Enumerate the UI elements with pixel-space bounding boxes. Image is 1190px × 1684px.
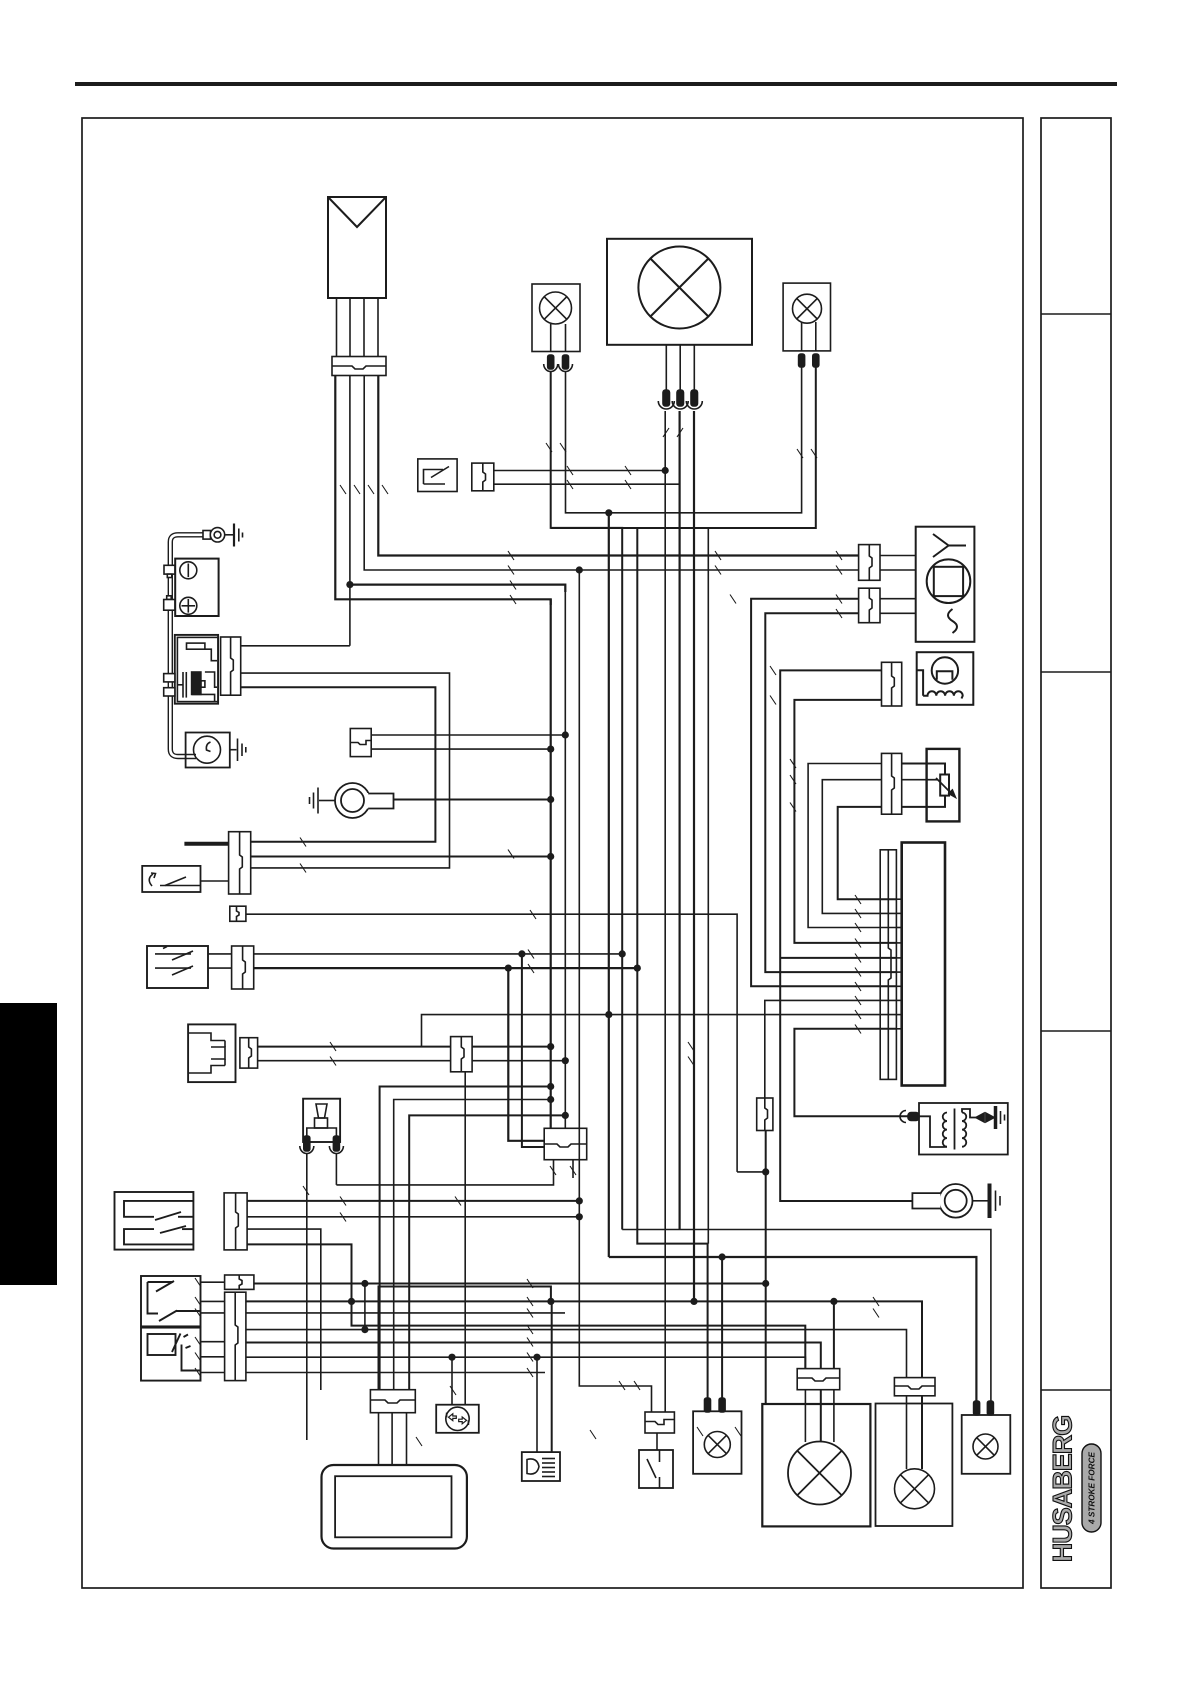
connector CDI aux [757, 1098, 773, 1131]
terminal battery plus [164, 596, 175, 610]
wire hb switch pin4 [247, 1244, 805, 1368]
kill switch [142, 866, 200, 892]
front turn signal lamp [693, 1411, 741, 1474]
regulator rectifier [328, 197, 386, 298]
node h3 junction a [361, 1280, 368, 1287]
wire flasher lead2 [258, 1060, 451, 1062]
wire turn indicator lead1 [451, 1357, 453, 1405]
pin right lamp 1 [799, 354, 805, 367]
ground spark plug [996, 1106, 1005, 1129]
socket cup ignition 2 [329, 1146, 343, 1154]
wire left lamp lead 2 [566, 372, 609, 513]
wire main connector stub [184, 842, 228, 846]
HUSABERG logo [1048, 1416, 1102, 1563]
wire right lamp lead 1 [609, 367, 802, 513]
sidebar divider 2 [1041, 671, 1111, 673]
wire line h6 [246, 1312, 565, 1314]
wire CDI pin10 to ignition coil [794, 1029, 908, 1117]
pin left lamp 1 [548, 355, 554, 369]
wire main connector to bus B1 [251, 856, 551, 858]
wire bus B2 [564, 585, 566, 1129]
pin headlight 3 [691, 390, 698, 406]
thermistor unit [927, 749, 960, 822]
magneto [912, 1184, 972, 1218]
wire speedo B to unit [880, 598, 916, 600]
position lamp left [532, 284, 580, 352]
sidebar column [1041, 118, 1111, 1588]
connector speedo bottom [370, 1390, 415, 1413]
wire thermistor lead2 [822, 780, 896, 914]
pin headlight 2 [677, 390, 684, 406]
turn signal indicator [436, 1405, 479, 1433]
node h5 junction a [547, 1298, 554, 1305]
wire relay to main connector a [241, 673, 450, 868]
wire bus B7 [707, 528, 709, 1244]
node h5 junction b [830, 1298, 837, 1305]
connector handlebar left [224, 1193, 247, 1250]
wire line h8 [246, 1330, 907, 1378]
terminal coil bullet [900, 1111, 919, 1123]
speedometer display [322, 1465, 467, 1549]
node R3 junction [605, 509, 612, 516]
wire speedo A to unit [880, 555, 916, 557]
CDI unit [902, 843, 945, 1086]
terminal relay 2 [164, 688, 175, 696]
connector neutral switch [645, 1412, 674, 1450]
node hb pin1 junction [576, 1197, 583, 1204]
node B9 junction [505, 965, 512, 972]
brake tail lamp [876, 1404, 953, 1527]
wire bus B10 rear harness [522, 954, 544, 1147]
connector CDI strip [880, 850, 896, 1080]
rear turn signal lamp [962, 1415, 1011, 1474]
connector speedo B [859, 588, 880, 623]
wire headlight switch feed a [208, 953, 232, 955]
node hb pin4 junction L1 [348, 1298, 355, 1305]
wire speedo B lead2 to CDI [765, 613, 896, 972]
connector accessory [350, 729, 371, 757]
wire brake tail pins [907, 1396, 923, 1469]
wire CDI pin8 to lower connector [765, 1000, 897, 1098]
terminal relay 1 [164, 674, 175, 682]
wire h5 branch down [833, 1301, 835, 1368]
node h10 junction beamind [533, 1354, 540, 1361]
pin front lamp 1 [705, 1398, 711, 1412]
node CDI pin9 junction [605, 1011, 612, 1018]
node horn junction [547, 796, 554, 803]
wire lighting switch links [201, 1282, 225, 1372]
pickup coil unit [917, 652, 974, 705]
wire bus B3 [579, 570, 651, 1412]
wire regulator leads [336, 298, 338, 356]
node B6 junction [634, 965, 641, 972]
wire line h9 [246, 1343, 821, 1369]
connector tail light [797, 1369, 840, 1390]
connector brake switch [472, 463, 494, 491]
wire speedo pins [379, 1413, 407, 1465]
connector pickup [882, 662, 902, 706]
wire line h2 [609, 1257, 977, 1407]
horn [335, 783, 394, 818]
node R7 junction [346, 581, 353, 588]
wire ignition lead2 down [335, 1154, 337, 1185]
wire CDI pin row stubs [896, 899, 901, 1029]
wire instrument stub right [572, 1160, 574, 1178]
ignition coil [919, 1103, 1008, 1155]
node main junction B1 [547, 853, 554, 860]
position lamp right [783, 283, 830, 351]
socket cup headlight 1 [658, 401, 674, 409]
wire headlight indicator lead1 [536, 1357, 538, 1452]
socket cup headlight 2 [672, 401, 688, 409]
connector instrument harness [544, 1128, 587, 1159]
wire pickup lead1 [780, 670, 912, 1201]
wire regulator out 3 [364, 376, 858, 570]
pin rear lamp 2 [987, 1401, 993, 1415]
wire headlight lead1 down [664, 411, 666, 1412]
wire rail R2 [494, 483, 680, 485]
connector speedo A [859, 545, 880, 581]
top rule [75, 82, 1117, 86]
connector small lighting [230, 906, 246, 921]
wire speedo harness lead3 [409, 1115, 565, 1389]
wire accessory lead2 [371, 748, 551, 750]
wire speedo harness lead2 [394, 1100, 551, 1390]
wire headlight indicator lead2 [551, 1301, 553, 1452]
node R1 junction [662, 467, 669, 474]
node accessory junction 2 [547, 746, 554, 753]
wire battery ground cable outline [170, 535, 206, 757]
terminal battery minus [164, 565, 175, 577]
pin right lamp 2 [813, 354, 819, 367]
wire CDI pin9 from flasher jog [422, 1015, 897, 1047]
pin ignition switch 1 [304, 1136, 310, 1151]
wire line h5 main [246, 1301, 922, 1377]
socket cup headlight 3 [686, 401, 702, 409]
wire bus B1 [550, 599, 552, 1128]
wire hb switch pin1 [247, 1200, 579, 1202]
ground magneto [973, 1184, 1001, 1219]
neutral switch [639, 1450, 673, 1488]
wire relay to main connector b [241, 687, 436, 842]
wire flasher lead1 [258, 1046, 451, 1048]
wire kill line join [737, 1171, 766, 1173]
node h3 junction b [762, 1280, 769, 1287]
wire accessory lead1 [371, 734, 565, 736]
connector headlight switch [232, 946, 254, 989]
sidebar divider 1 [1041, 313, 1111, 315]
wire speedo extra lead [380, 1087, 551, 1390]
horn capacitor [186, 733, 230, 768]
wire headlight lead2 down [678, 411, 680, 1230]
main border frame [82, 118, 1023, 1588]
node rail R6 junction [576, 566, 583, 573]
wire hb pin3 vertical link [364, 1284, 366, 1330]
ground battery [203, 524, 243, 547]
headlight beam indicator [522, 1452, 560, 1481]
wire bus B8 tail feed [765, 1131, 767, 1405]
node B5 junction [619, 950, 626, 957]
node B8 kill junction [762, 1168, 769, 1175]
speedometer unit [916, 527, 975, 642]
connector relay [221, 637, 241, 695]
wire headlight leads [665, 345, 667, 391]
wire CDI pin5 to pickup bus [780, 957, 896, 959]
wire bus B6 [637, 528, 707, 1404]
wire slash marks [195, 428, 879, 1446]
wire regulator out 4 [378, 376, 858, 556]
wire speedo harness lead1 [379, 1287, 551, 1390]
node flasher junction B1 [547, 1043, 554, 1050]
wire bus B9 harness feed [508, 968, 544, 1141]
lighting switch upper [141, 1276, 201, 1326]
wire switch to bus B6 [254, 967, 638, 969]
node pin3 link junction [361, 1326, 368, 1333]
node headlight lead3 junction [690, 1298, 697, 1305]
wire switch to bus B5 [254, 953, 623, 955]
node speedo lead2 junction [547, 1096, 554, 1103]
node flasher junction B2 [562, 1057, 569, 1064]
socket cup left lamp 2 [559, 364, 573, 372]
wire turn indicator lead2 [464, 1072, 466, 1405]
ground horn capacitor [230, 739, 246, 762]
wire headlight lead3 down [693, 411, 695, 1301]
handlebar switch left [115, 1192, 194, 1250]
lighting switch lower [141, 1328, 201, 1381]
node accessory junction 1 [562, 731, 569, 738]
wire pickup lead2 [794, 700, 896, 943]
wire left lamp lead 1 [551, 372, 623, 1230]
battery [175, 559, 218, 616]
wire bus B4 [608, 513, 610, 1257]
socket cup left lamp 1 [544, 364, 558, 372]
wire flasher to bus B2 [472, 1060, 565, 1062]
svg-text:4 STROKE FORCE: 4 STROKE FORCE [1088, 1452, 1097, 1525]
node speedo extra junction [547, 1083, 554, 1090]
headlight [607, 239, 752, 345]
pin headlight 1 [663, 390, 670, 406]
wire hb switch pin2 [247, 1216, 579, 1218]
node h10 junction turnind [448, 1354, 455, 1361]
wire ignition lead1 down [306, 1154, 308, 1441]
pin front lamp 2 [719, 1398, 725, 1412]
wire line h10 [246, 1357, 806, 1368]
connector lighting small [225, 1275, 254, 1289]
tail light [762, 1404, 870, 1526]
wire hb switch pin3 [247, 1229, 321, 1390]
node hb pin2 junction [576, 1213, 583, 1220]
flasher relay [188, 1024, 235, 1082]
sidebar divider 4 [1041, 1389, 1111, 1391]
ground horn [310, 788, 336, 814]
wire flasher to bus B1 [472, 1046, 551, 1048]
connector regulator [332, 357, 386, 376]
wire tail light pins [805, 1390, 834, 1442]
wire thermistor lead1 [808, 764, 896, 928]
pin left lamp 2 [563, 355, 569, 369]
wire relay to R7 [241, 645, 350, 647]
wire thermistor lead3 [838, 807, 897, 899]
connector main harness [229, 832, 251, 894]
wire right lamp lead 2 [551, 367, 816, 528]
node B10 junction [518, 950, 525, 957]
wire kill to connector [201, 880, 229, 882]
connector thermistor [882, 753, 902, 814]
wire thermistor links [902, 763, 927, 765]
node speedo lead3 junction [562, 1112, 569, 1119]
socket cup ignition 1 [300, 1146, 314, 1154]
wire regulator out 2 [349, 376, 351, 646]
wire front lamp right pin [721, 1257, 723, 1404]
wire horn to bus B1 [394, 799, 551, 801]
wire line h1 rear lamp [622, 1230, 991, 1408]
headlight switch [147, 946, 208, 988]
connector flasher [240, 1038, 258, 1068]
sidebar divider 3 [1041, 1030, 1111, 1032]
wire regulator out 1 [335, 376, 550, 605]
brake switch [418, 459, 457, 492]
wire rail R7 [350, 585, 565, 592]
ignition switch [303, 1099, 340, 1142]
wire line h11 [246, 1372, 545, 1374]
node h2 junction front lamp [719, 1253, 726, 1260]
wire instrument stub left [336, 1160, 553, 1185]
wire line h3 taillight feed [254, 1283, 766, 1285]
pin rear lamp 1 [974, 1401, 980, 1415]
svg-text:HUSABERG: HUSABERG [1048, 1416, 1078, 1563]
connector lighting tall [225, 1292, 246, 1380]
connector brake tail [894, 1378, 935, 1396]
connector flasher harness [451, 1037, 473, 1072]
pin ignition switch 2 [333, 1136, 339, 1151]
starter relay [175, 635, 218, 704]
wire lighting line to kill bus [246, 914, 737, 1172]
wire rail R1 [494, 470, 665, 472]
left black tab [0, 1003, 57, 1285]
wire speedo B lead1 to CDI [751, 599, 896, 987]
